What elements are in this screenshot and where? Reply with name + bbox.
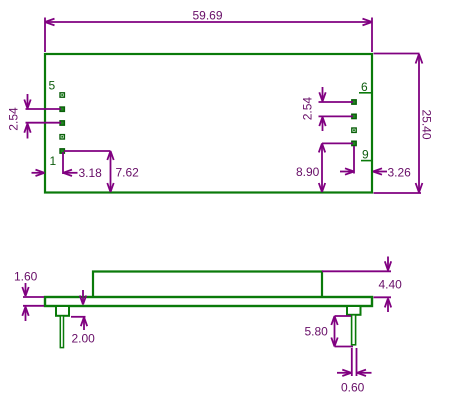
- svg-text:0.60: 0.60: [341, 381, 365, 395]
- svg-text:2.00: 2.00: [72, 332, 96, 346]
- svg-text:3.18: 3.18: [79, 166, 103, 180]
- left pin lead (side view): [60, 316, 63, 348]
- pin 6 pad (filled): [352, 100, 356, 104]
- svg-text:6: 6: [361, 80, 368, 94]
- pin label 6: [359, 80, 372, 94]
- dimension 3.18 (pin 1 to left edge): [32, 152, 103, 180]
- svg-text:8.90: 8.90: [296, 165, 320, 179]
- pin 2 pad (open): [60, 135, 64, 139]
- svg-text:5: 5: [49, 79, 56, 93]
- dimension 0.60 (pin width): [337, 348, 372, 395]
- dimension 25.40 (board height): [374, 54, 434, 194]
- svg-text:7.62: 7.62: [116, 166, 140, 180]
- svg-text:1.60: 1.60: [14, 270, 38, 284]
- svg-text:4.40: 4.40: [379, 278, 403, 292]
- dimension 5.80 (pin length): [305, 316, 354, 347]
- dimension 8.90 (pin 9 row to bottom edge): [296, 143, 353, 192]
- pin 3 pad (filled): [60, 121, 64, 125]
- dimension 3.26 (pin 9 to right edge): [340, 146, 411, 180]
- svg-text:2.54: 2.54: [7, 107, 21, 131]
- svg-text:59.69: 59.69: [192, 8, 222, 22]
- dimension 2.54 (right pin pitch): [300, 87, 353, 131]
- component body (side view): [93, 272, 322, 298]
- pin 7 pad (filled): [352, 114, 356, 118]
- pin 8 pad (open): [352, 128, 356, 132]
- svg-text:9: 9: [362, 148, 369, 162]
- right pin lead (side view): [352, 315, 356, 345]
- dimension 1.60 (board thickness): [14, 270, 44, 322]
- left pin shoulder (side view): [56, 306, 69, 316]
- pin 9 pad (filled): [352, 141, 356, 145]
- dimension 59.69 (board width): [45, 8, 372, 52]
- svg-text:25.40: 25.40: [420, 109, 434, 139]
- svg-text:3.26: 3.26: [388, 166, 412, 180]
- dimension 7.62 (pin 1 row to bottom edge): [64, 151, 139, 192]
- right pin shoulder (side view): [347, 306, 361, 315]
- svg-text:2.54: 2.54: [300, 97, 314, 121]
- svg-text:1: 1: [50, 154, 57, 168]
- pin label 9: [361, 148, 372, 162]
- pin 1 pad (filled): [60, 149, 64, 153]
- board outline (top view): [45, 54, 372, 193]
- pin 4 pad (filled): [60, 107, 64, 111]
- dimension 2.00 (pin shoulder height): [71, 290, 95, 346]
- pin 5 pad (open): [60, 93, 64, 97]
- board outline (side view): [45, 297, 372, 306]
- svg-text:5.80: 5.80: [305, 325, 329, 339]
- dimension 4.40 (component top to board top): [322, 257, 402, 313]
- dimension 2.54 (left pin pitch): [7, 94, 62, 139]
